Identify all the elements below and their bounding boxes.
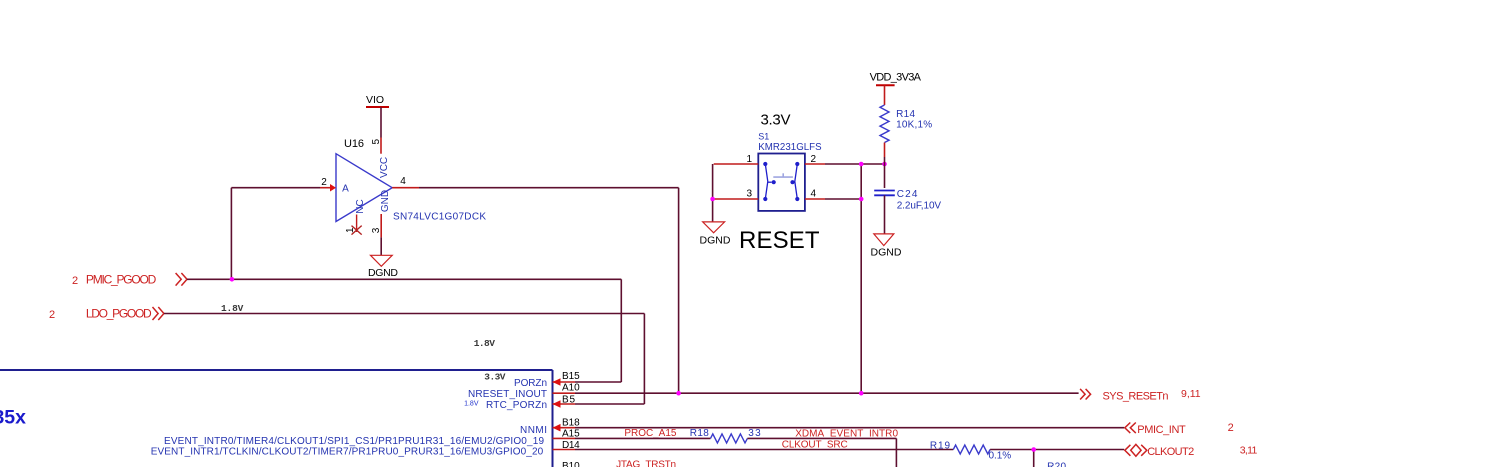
svg-text:R19: R19 xyxy=(930,441,951,452)
U16 pin 2 input A xyxy=(320,177,349,195)
svg-text:3.3V: 3.3V xyxy=(484,372,505,383)
U16 pin 5 VCC xyxy=(371,138,390,178)
wire switch pins 1,3 to DGND xyxy=(712,164,714,222)
svg-text:5: 5 xyxy=(371,138,382,144)
svg-text:33: 33 xyxy=(748,428,761,439)
svg-text:A: A xyxy=(342,184,349,195)
svg-text:1: 1 xyxy=(746,154,752,165)
svg-text:A10: A10 xyxy=(562,383,580,394)
svg-text:PMIC_INT: PMIC_INT xyxy=(1137,424,1186,436)
U16 pin 4 output xyxy=(392,176,419,188)
port LDO_PGOOD xyxy=(49,307,164,321)
capacitor C24 xyxy=(874,189,941,212)
svg-text:VDD_3V3A: VDD_3V3A xyxy=(870,71,922,83)
svg-text:0.1%: 0.1% xyxy=(989,451,1012,462)
power symbol VIO xyxy=(366,94,389,107)
svg-text:2: 2 xyxy=(49,309,55,321)
svg-text:B5: B5 xyxy=(562,394,575,405)
svg-text:EVENT_INTR0/TIMER4/CLKOUT1/SPI: EVENT_INTR0/TIMER4/CLKOUT1/SPI1_CS1/PR1P… xyxy=(164,436,544,447)
svg-text:GND: GND xyxy=(380,190,391,212)
IC pin A15 EVENT_INTR0 xyxy=(164,429,580,447)
svg-text:C24: C24 xyxy=(897,189,918,200)
svg-text:9,11: 9,11 xyxy=(1181,388,1201,400)
switch pin 2 xyxy=(805,154,825,165)
port SYS_RESETn xyxy=(1080,388,1201,403)
svg-text:3.3V: 3.3V xyxy=(761,111,791,128)
svg-text:R14: R14 xyxy=(896,109,915,120)
wire PMIC_PGOOD net xyxy=(187,188,621,382)
svg-text:4: 4 xyxy=(400,176,406,187)
svg-text:VIO: VIO xyxy=(366,94,384,106)
port CLKOUT2 xyxy=(1125,444,1258,458)
svg-text:B10: B10 xyxy=(562,461,580,467)
svg-text:2.2uF,10V: 2.2uF,10V xyxy=(897,201,942,212)
U16 pin 3 GND xyxy=(371,190,391,238)
svg-text:PORZn: PORZn xyxy=(514,378,547,389)
ground DGND (C24) xyxy=(871,234,902,259)
svg-text:3: 3 xyxy=(371,227,382,233)
svg-text:2: 2 xyxy=(72,275,78,287)
svg-text:RESET: RESET xyxy=(739,227,820,254)
wire net NNMI to PMIC_INT xyxy=(575,427,1124,429)
svg-text:SYS_RESETn: SYS_RESETn xyxy=(1103,391,1169,403)
junction PMIC_PGOOD / U16 input xyxy=(230,277,235,282)
port PMIC_INT xyxy=(1125,422,1234,436)
junction pin2 row x884 xyxy=(882,162,887,167)
wire C24 to DGND xyxy=(884,195,886,234)
svg-text:RTC_PORZn: RTC_PORZn xyxy=(486,400,547,411)
svg-text:CLKOUT2: CLKOUT2 xyxy=(1147,446,1194,458)
svg-text:PROC_A15: PROC_A15 xyxy=(624,428,676,439)
U16 pin 1 NC with no-connect X xyxy=(345,199,366,234)
svg-text:CLKOUT_SRC: CLKOUT_SRC xyxy=(782,439,848,450)
switch S1 contacts and actuator xyxy=(763,162,799,201)
switch pin 1 xyxy=(714,154,759,165)
IC AM335x body xyxy=(0,370,553,467)
svg-text:1.8V: 1.8V xyxy=(474,338,495,349)
junction pin2 row x861 xyxy=(859,162,864,167)
svg-text:10K,1%: 10K,1% xyxy=(896,120,932,131)
svg-text:NC: NC xyxy=(355,199,366,213)
wire U16 pin 3 to DGND xyxy=(380,237,382,255)
wire B5 pin to LDO_PGOOD vertical xyxy=(575,403,644,405)
IC pin B10 JTAG_TRSTn (cut off) xyxy=(562,460,676,467)
op-amp U16 body xyxy=(336,154,392,222)
svg-text:NRESET_INOUT: NRESET_INOUT xyxy=(468,389,547,400)
IC pin B18 NNMI xyxy=(520,417,580,436)
switch pin 4 xyxy=(805,189,825,200)
svg-text:B15: B15 xyxy=(562,371,580,382)
wire R14 to junction xyxy=(884,157,886,188)
wire U16 output net xyxy=(419,188,679,394)
junction pin4 row x861 xyxy=(859,197,864,202)
svg-text:B18: B18 xyxy=(562,417,580,428)
svg-text:4: 4 xyxy=(811,189,817,200)
svg-text:LDO_PGOOD: LDO_PGOOD xyxy=(86,307,152,321)
svg-text:VCC: VCC xyxy=(379,157,390,178)
wire XDMA_EVENT_INTR0 xyxy=(747,438,896,467)
junction CLKOUT net xyxy=(1031,447,1036,452)
ground DGND (U16) xyxy=(368,255,398,279)
svg-text:AM335x: AM335x xyxy=(0,407,26,429)
port PMIC_PGOOD xyxy=(72,272,187,287)
IC pin D14 EVENT_INTR1 xyxy=(151,440,580,458)
switch pin 3 xyxy=(714,189,759,200)
svg-text:NNMI: NNMI xyxy=(520,425,547,436)
wire CLKOUT_SRC xyxy=(575,449,953,451)
resistor R19 xyxy=(930,441,1011,462)
switch S1 body xyxy=(758,154,805,211)
svg-text:2: 2 xyxy=(321,177,327,188)
resistor R14 xyxy=(880,85,932,157)
wire B15 pin to PMIC_PGOOD vertical xyxy=(575,381,621,383)
wire R19 to CLKOUT2 xyxy=(990,449,1124,451)
IC pin B15 PORZn xyxy=(514,371,580,389)
wire switch pin 2 row to R14/C24 column xyxy=(825,163,885,165)
junction SYS_RESETn / U16 output xyxy=(676,391,681,396)
svg-text:S1: S1 xyxy=(758,132,769,142)
svg-text:2: 2 xyxy=(811,154,817,165)
wire switch pin 4 row xyxy=(825,198,861,200)
junction SYS_RESETn / switch net xyxy=(859,391,864,396)
junction switch pin 3 xyxy=(710,197,715,202)
wire switch net down to SYS_RESETn row xyxy=(860,164,862,393)
svg-text:1: 1 xyxy=(345,227,356,233)
IC pin A10 NRESET_INOUT xyxy=(468,383,580,400)
svg-text:R20: R20 xyxy=(1047,462,1066,467)
svg-text:PMIC_PGOOD: PMIC_PGOOD xyxy=(86,272,157,286)
svg-text:DGND: DGND xyxy=(368,267,398,279)
svg-text:3: 3 xyxy=(746,189,752,200)
svg-text:EVENT_INTR1/TCLKIN/CLKOUT2/TIM: EVENT_INTR1/TCLKIN/CLKOUT2/TIMER7/PR1PRU… xyxy=(151,447,544,458)
wire LDO_PGOOD net xyxy=(164,314,644,405)
IC pin B5 RTC_PORZn xyxy=(486,394,575,411)
wire net SYS_RESETn xyxy=(575,392,1079,394)
svg-text:U16: U16 xyxy=(344,138,364,150)
wire VIO to U16 pin 5 xyxy=(380,107,382,138)
wire down from CLKOUT junction xyxy=(1033,450,1035,467)
power symbol VDD_3V3A xyxy=(870,71,922,85)
resistor R18 xyxy=(575,428,761,443)
svg-text:DGND: DGND xyxy=(700,234,731,246)
svg-text:DGND: DGND xyxy=(871,247,902,259)
svg-text:3,11: 3,11 xyxy=(1240,445,1258,457)
svg-text:1.8V: 1.8V xyxy=(221,303,244,314)
svg-text:R18: R18 xyxy=(690,428,709,439)
ground DGND (switch) xyxy=(700,222,731,247)
svg-text:SN74LVC1G07DCK: SN74LVC1G07DCK xyxy=(393,212,486,223)
svg-text:KMR231GLFS: KMR231GLFS xyxy=(758,142,822,153)
svg-text:2: 2 xyxy=(1228,422,1234,434)
svg-text:JTAG_TRSTn: JTAG_TRSTn xyxy=(616,460,676,467)
svg-text:1.8V: 1.8V xyxy=(464,401,479,408)
